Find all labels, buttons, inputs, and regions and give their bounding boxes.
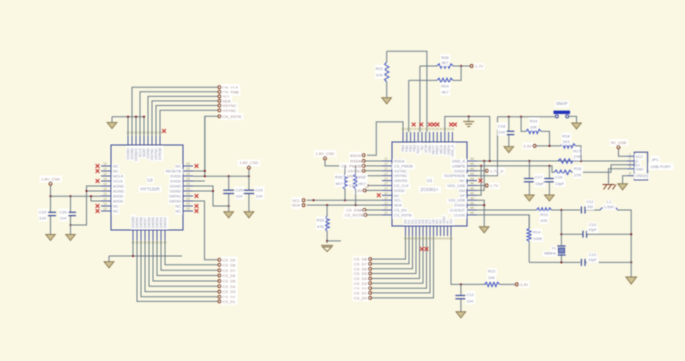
svg-text:16: 16	[163, 241, 167, 245]
svg-text:DVDD: DVDD	[170, 180, 181, 184]
svg-text:23: 23	[186, 192, 190, 196]
resistor R14	[527, 215, 543, 263]
svg-text:104: 104	[467, 298, 474, 303]
svg-text:DATA1: DATA1	[169, 195, 181, 199]
svg-text:R14: R14	[533, 229, 541, 234]
svg-text:ZC0301+: ZC0301+	[420, 187, 439, 192]
U1 top pins	[401, 127, 454, 157]
capacitor C16	[544, 166, 565, 195]
wire DATA7 to CS_D3	[145, 240, 218, 292]
wire riser DGND2	[135, 117, 137, 136]
svg-text:R18: R18	[562, 133, 570, 138]
wire BSCK loop	[367, 122, 403, 155]
wire riser DGND1	[127, 117, 129, 136]
power port 1.8V c	[354, 188, 382, 193]
svg-text:104: 104	[60, 215, 67, 220]
svg-text:44: 44	[470, 177, 474, 181]
svg-text:3.3V: 3.3V	[520, 282, 529, 287]
wire 1.8V_CSD stem	[248, 169, 250, 176]
svg-text:XO: XO	[449, 219, 453, 224]
wire DVDD2 gnd	[477, 204, 484, 206]
resistor R32	[353, 166, 366, 205]
port HSYNC	[347, 173, 382, 178]
resistor R33	[317, 205, 330, 243]
wire SCL top	[148, 96, 218, 136]
ground xtal	[626, 262, 637, 284]
svg-text:V33_USB: V33_USB	[448, 199, 465, 203]
svg-text:U2: U2	[147, 178, 153, 183]
svg-text:12: 12	[103, 202, 107, 206]
port CS_D1	[354, 291, 372, 296]
port CS_ENB	[346, 208, 382, 213]
U2 right pins	[166, 162, 193, 213]
svg-text:R19: R19	[530, 118, 538, 123]
svg-text:C14: C14	[589, 223, 596, 227]
wire DATA5 to CS_D5	[153, 240, 218, 281]
svg-text:12: 12	[103, 207, 107, 211]
no-ERC marks U1 bottom	[420, 247, 428, 251]
svg-text:10K: 10K	[530, 124, 537, 129]
wire U2 bottom ground bus	[109, 255, 182, 257]
U1 bottom pins	[404, 216, 454, 241]
wire CN_ENB	[140, 92, 218, 136]
node xtal col junction	[560, 233, 562, 235]
resistor R13	[485, 269, 516, 287]
power port 1.8V_CSD 2	[316, 151, 356, 166]
svg-text:44: 44	[470, 192, 474, 196]
svg-text:GND(S): GND(S)	[636, 174, 649, 178]
svg-text:12: 12	[103, 162, 107, 166]
svg-text:DVDD: DVDD	[454, 204, 465, 208]
port CS_D2	[218, 294, 236, 299]
svg-text:DVDD: DVDD	[394, 189, 405, 193]
wire U1 D8 stair	[372, 236, 406, 259]
port CS_D4	[354, 276, 372, 281]
wire DATA3 to CS_D7	[161, 240, 218, 270]
svg-text:R26: R26	[441, 55, 449, 60]
port VSYNC	[347, 168, 382, 173]
wire V33 gnd	[477, 200, 484, 227]
no-ERC marks U1 top	[412, 123, 457, 127]
U2 left pins	[101, 162, 124, 213]
node xtal top	[560, 209, 562, 211]
wire DVDD to port	[477, 170, 484, 172]
wire W2 cont	[572, 165, 627, 173]
wire RESETB to DVDD rail	[204, 116, 206, 176]
svg-text:NC: NC	[113, 210, 119, 214]
port CN_RSTB	[218, 114, 242, 119]
svg-text:5: 5	[629, 172, 631, 176]
wire U1 D2 stair	[372, 236, 427, 288]
op-amp U1 ZC0301 body	[392, 142, 467, 226]
port CS_D2	[354, 286, 372, 291]
ground C18	[504, 147, 513, 153]
port CS_D3	[354, 281, 372, 286]
svg-text:4K7: 4K7	[335, 181, 343, 186]
svg-text:4K7: 4K7	[442, 61, 449, 65]
svg-text:AGND: AGND	[113, 185, 124, 189]
power port 1.7V b	[485, 183, 498, 188]
svg-text:R33: R33	[317, 218, 325, 223]
power port 1.8V_CSA	[41, 176, 60, 185]
svg-text:JP1: JP1	[652, 157, 660, 162]
port CS_CLK	[349, 183, 382, 188]
svg-text:12: 12	[103, 182, 107, 186]
svg-text:23: 23	[186, 167, 190, 171]
ground SNAP	[572, 123, 581, 129]
port CS_D5	[218, 279, 236, 284]
node DVDD rail junctions	[204, 170, 250, 177]
svg-text:DATA2: DATA2	[163, 217, 167, 228]
svg-text:12: 12	[103, 197, 107, 201]
node bottom rail junction	[560, 261, 562, 263]
wire SUSPENDB up	[477, 117, 498, 176]
ground C25	[224, 212, 234, 218]
svg-text:DVDD: DVDD	[170, 175, 181, 179]
capacitor C13	[581, 253, 597, 266]
svg-text:5V_USB: 5V_USB	[611, 140, 627, 145]
svg-text:STROB: STROB	[158, 147, 162, 160]
power port 3.3V a	[523, 144, 536, 149]
wire DM line W1	[477, 160, 627, 162]
svg-text:17: 17	[384, 157, 388, 161]
node R24 join	[460, 65, 462, 67]
svg-text:RESETB: RESETB	[166, 170, 182, 174]
node snap rail junctions	[508, 116, 523, 118]
wire R22 rail	[387, 51, 427, 132]
wire bottom pin to bus	[132, 240, 134, 256]
svg-text:27R: 27R	[573, 154, 580, 159]
wire CLKOUT	[477, 209, 537, 211]
svg-text:CS_D6: CS_D6	[223, 273, 237, 278]
power port 5V_USB	[611, 140, 627, 157]
svg-text:1.5uH: 1.5uH	[604, 205, 614, 209]
svg-text:104: 104	[498, 129, 505, 134]
node pullup rail junction	[344, 165, 346, 167]
wire U1 D4 stair	[372, 236, 420, 279]
svg-text:GND: GND	[636, 167, 644, 171]
svg-text:C16: C16	[555, 174, 563, 179]
wire SCL line	[307, 199, 382, 201]
svg-text:GND_A: GND_A	[452, 160, 466, 164]
ground U2 bottom bus	[104, 256, 114, 268]
svg-text:CS_D1: CS_D1	[223, 299, 237, 304]
ground JP1 shield	[618, 184, 628, 190]
node DGND junctions	[212, 190, 230, 207]
svg-text:R15: R15	[540, 212, 548, 217]
wire xtal bottom rail	[529, 261, 631, 263]
svg-text:DATA0: DATA0	[169, 200, 181, 204]
wire 1.8V_CSA rail	[51, 185, 102, 196]
capacitor C24	[243, 176, 263, 212]
power port 1.7V a	[470, 64, 483, 69]
ground U1 top	[463, 117, 474, 127]
svg-text:DVDD: DVDD	[454, 169, 465, 173]
svg-text:SDA: SDA	[292, 203, 301, 208]
port CS_D1	[218, 299, 236, 304]
wire R24 left	[409, 80, 437, 132]
svg-text:R17: R17	[573, 149, 581, 154]
port BSCK	[350, 153, 365, 158]
svg-text:C18: C18	[498, 123, 506, 128]
svg-text:17: 17	[384, 177, 388, 181]
inductor L1	[601, 200, 632, 262]
svg-text:1.8V_CSD: 1.8V_CSD	[316, 151, 335, 156]
wire SDA line	[307, 204, 382, 206]
svg-text:C20: C20	[59, 209, 67, 214]
port CS_D4	[218, 284, 236, 289]
port CS_D9	[218, 257, 236, 262]
svg-text:Y1: Y1	[551, 246, 556, 250]
port SCL	[292, 198, 305, 203]
svg-text:R16: R16	[574, 166, 582, 171]
svg-text:C12: C12	[467, 292, 475, 297]
svg-text:17: 17	[384, 167, 388, 171]
capacitor C25	[223, 176, 243, 212]
no-ERC marks U2 right	[195, 164, 199, 213]
capacitor C20	[59, 196, 76, 234]
svg-text:44: 44	[470, 167, 474, 171]
svg-text:NC: NC	[176, 165, 182, 169]
svg-text:USB PORT: USB PORT	[651, 164, 672, 169]
svg-text:44: 44	[470, 172, 474, 176]
svg-text:VSYNC: VSYNC	[223, 108, 237, 113]
svg-text:4: 4	[629, 165, 631, 169]
resistor R18	[561, 133, 581, 161]
wire AGND1	[71, 186, 102, 225]
svg-text:1.7V_D: 1.7V_D	[490, 168, 503, 173]
svg-text:17: 17	[384, 162, 388, 166]
svg-text:RSDA: RSDA	[394, 160, 405, 164]
wire CN_CLK	[132, 87, 218, 136]
U2 top pins	[126, 131, 162, 162]
capacitor C17	[524, 161, 545, 195]
svg-text:44: 44	[470, 157, 474, 161]
svg-text:VCC: VCC	[636, 155, 644, 159]
wire riser DGND3	[143, 117, 145, 136]
svg-text:AGND: AGND	[113, 190, 124, 194]
wire 3.3V to R18	[536, 145, 560, 147]
wire U1 D7 stair	[372, 236, 409, 264]
wire snap right	[569, 116, 577, 123]
no-ERC mark U1 left NC	[377, 193, 381, 197]
svg-text:100K: 100K	[533, 236, 543, 241]
svg-text:10pF: 10pF	[555, 181, 565, 186]
svg-text:VCLK: VCLK	[113, 180, 123, 184]
node SCL/SDA junctions	[312, 199, 356, 206]
svg-text:CN_RSTB: CN_RSTB	[223, 114, 242, 119]
ground C17	[525, 195, 535, 201]
U1 left pins	[382, 157, 413, 217]
ground R33	[321, 246, 333, 252]
svg-text:10pF: 10pF	[588, 228, 597, 232]
svg-text:SUSPENDB: SUSPENDB	[444, 174, 465, 178]
node R19 bottom	[548, 145, 550, 147]
svg-text:NC: NC	[394, 194, 400, 198]
svg-text:C12: C12	[587, 200, 594, 204]
svg-text:4K7: 4K7	[441, 90, 449, 95]
svg-text:1.7V: 1.7V	[475, 64, 484, 69]
svg-text:23: 23	[186, 197, 190, 201]
capacitor C12 series	[581, 200, 600, 213]
ground R22	[382, 98, 392, 104]
svg-text:48MHz: 48MHz	[544, 252, 556, 256]
svg-text:CLKIN: CLKIN	[454, 213, 465, 217]
wire HSYNC top	[156, 106, 218, 137]
resistor R22	[376, 51, 389, 98]
node right col junctions	[630, 233, 632, 263]
wire DATA9 to CS_D1	[137, 240, 218, 301]
wire U2 DGND1	[193, 186, 229, 206]
port HSYNC	[218, 103, 237, 108]
U2 bottom pins	[131, 216, 167, 244]
wire DP riser	[477, 166, 481, 195]
svg-text:44: 44	[470, 162, 474, 166]
port CS_D3	[218, 289, 236, 294]
port CS_PWDB	[341, 164, 382, 169]
wire U1 D6 stair	[372, 236, 413, 269]
port CN_ENB	[218, 89, 239, 94]
svg-text:CS_CLK: CS_CLK	[394, 184, 409, 188]
svg-text:27R: 27R	[574, 172, 581, 177]
wire DP line W2	[477, 166, 554, 172]
svg-text:NC: NC	[113, 170, 119, 174]
U1 right pins	[444, 157, 477, 217]
svg-text:44: 44	[470, 211, 474, 215]
svg-text:44: 44	[470, 187, 474, 191]
svg-text:17: 17	[384, 182, 388, 186]
svg-text:10pF: 10pF	[535, 181, 545, 186]
svg-text:CS_RSTB: CS_RSTB	[345, 213, 364, 218]
wire DM riser	[477, 161, 484, 190]
wire AGND2	[87, 190, 102, 192]
wire DATA0 to CS_D9	[193, 201, 218, 260]
wire AVDD2 jog	[91, 196, 101, 201]
svg-text:CS_RSTB: CS_RSTB	[394, 213, 412, 217]
ground U1 right	[479, 227, 489, 233]
node V33 junction	[483, 204, 485, 206]
node W1 junctions	[483, 160, 582, 162]
port CS_D8	[354, 257, 372, 262]
wire U1 D1 stair	[372, 236, 430, 293]
svg-text:17: 17	[384, 206, 388, 210]
port CS_D8	[218, 262, 236, 267]
svg-text:R13: R13	[488, 269, 496, 274]
svg-text:NC: NC	[176, 210, 182, 214]
no-ERC mark U1 right NC	[479, 179, 483, 183]
svg-text:NC: NC	[176, 205, 182, 209]
port VSYNC	[218, 108, 236, 113]
port SCL	[218, 94, 231, 99]
port CS_D6	[354, 266, 372, 271]
svg-text:17: 17	[384, 187, 388, 191]
svg-text:1.8V_CSA: 1.8V_CSA	[41, 176, 60, 181]
port CS_D0	[354, 296, 372, 301]
resistor R16	[554, 166, 582, 177]
ground C20	[66, 235, 75, 241]
wire VSYNC top	[160, 110, 218, 136]
port CS_D7	[218, 268, 236, 273]
ground C22	[46, 235, 55, 241]
svg-text:HY7131R: HY7131R	[140, 187, 159, 192]
wire xtal col	[560, 210, 562, 247]
crystal Y1	[544, 246, 566, 262]
svg-text:17: 17	[384, 192, 388, 196]
svg-text:12: 12	[103, 187, 107, 191]
svg-text:SDA: SDA	[394, 204, 402, 208]
wire CLK pin down	[451, 236, 486, 284]
svg-text:NC: NC	[113, 165, 119, 169]
svg-text:332: 332	[587, 205, 593, 209]
svg-text:12: 12	[103, 192, 107, 196]
switch SNAP	[554, 101, 571, 118]
svg-text:44: 44	[470, 196, 474, 200]
svg-text:17: 17	[384, 172, 388, 176]
svg-text:55: 55	[449, 237, 453, 241]
svg-text:3.3V: 3.3V	[523, 144, 532, 149]
ground C12 bottom	[456, 312, 466, 318]
svg-text:12: 12	[103, 167, 107, 171]
wire U2 top ground bus	[112, 116, 144, 118]
svg-text:R32: R32	[359, 175, 367, 180]
svg-text:R30: R30	[335, 175, 343, 180]
svg-text:C13: C13	[589, 253, 596, 257]
svg-text:17: 17	[384, 196, 388, 200]
svg-text:DGND: DGND	[170, 190, 181, 194]
svg-text:44: 44	[470, 201, 474, 205]
svg-text:104: 104	[256, 193, 263, 198]
svg-text:23: 23	[186, 172, 190, 176]
resistor R15	[537, 208, 552, 223]
node R33 bottom	[326, 240, 341, 242]
svg-text:28: 28	[158, 131, 162, 135]
svg-text:SCL: SCL	[394, 199, 401, 203]
wire R15 to C12	[552, 209, 581, 211]
port SDA	[218, 99, 231, 104]
svg-text:104: 104	[236, 193, 243, 198]
svg-text:23: 23	[186, 162, 190, 166]
svg-text:C25: C25	[235, 187, 243, 192]
wire SDA top	[152, 101, 218, 136]
wire U1 top gnd rail	[445, 117, 490, 162]
svg-text:12: 12	[103, 177, 107, 181]
node top bus junctions	[127, 116, 145, 118]
capacitor C18	[498, 117, 514, 147]
svg-text:23: 23	[186, 187, 190, 191]
connector JP1 USB PORT	[627, 152, 672, 180]
node bottom bus junction	[132, 255, 134, 257]
svg-text:4K7: 4K7	[359, 181, 367, 186]
svg-text:23: 23	[186, 182, 190, 186]
wire snap rail	[498, 116, 555, 118]
svg-text:U1: U1	[427, 178, 433, 183]
svg-text:L1: L1	[607, 200, 611, 204]
port CS_D6	[218, 273, 236, 278]
svg-text:C22: C22	[39, 209, 47, 214]
wire U1 D0 stair	[372, 236, 434, 298]
svg-text:HSYNC: HSYNC	[394, 174, 408, 178]
ground C24	[244, 212, 254, 218]
port CN_CLK	[218, 85, 239, 90]
wire CN_RSTB	[193, 116, 218, 171]
resistor R17	[558, 149, 581, 164]
svg-text:C17: C17	[535, 174, 543, 179]
svg-text:CS_D0: CS_D0	[354, 296, 368, 301]
wire DATA2 to CS_D8	[165, 240, 218, 265]
wire U1 D5 stair	[372, 236, 416, 274]
svg-text:47K: 47K	[540, 218, 547, 223]
wire JP1 GNDS	[623, 176, 627, 184]
